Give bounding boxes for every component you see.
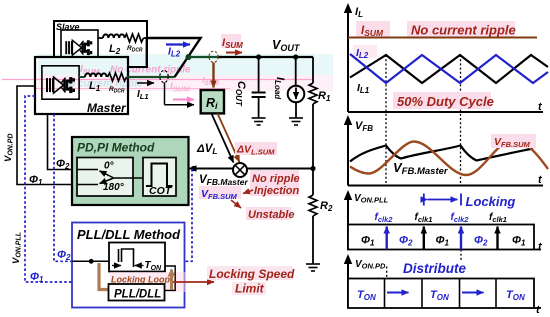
svg-text:PD,PI Method: PD,PI Method <box>77 141 155 155</box>
svg-text:Master: Master <box>87 101 127 115</box>
svg-text:COT: COT <box>149 185 173 197</box>
svg-text:R1: R1 <box>318 90 331 103</box>
svg-text:Locking: Locking <box>466 194 516 209</box>
svg-text:IL: IL <box>355 6 363 19</box>
svg-text:Φ1: Φ1 <box>30 271 44 284</box>
svg-text:Unstable: Unstable <box>248 209 294 221</box>
svg-text:Injection: Injection <box>254 185 300 197</box>
svg-text:VON.PLL: VON.PLL <box>11 232 23 264</box>
svg-text:Locking Speed: Locking Speed <box>209 267 295 281</box>
svg-text:180°: 180° <box>103 182 125 193</box>
svg-text:ΔVL: ΔVL <box>196 143 218 156</box>
svg-text:50% Duty Cycle: 50% Duty Cycle <box>397 94 494 109</box>
svg-text:VON.PLL: VON.PLL <box>354 193 389 205</box>
svg-text:fclk1: fclk1 <box>489 212 507 224</box>
svg-text:VON.PD: VON.PD <box>355 259 386 271</box>
svg-text:0°: 0° <box>104 161 115 172</box>
svg-text:PLL/DLL Method: PLL/DLL Method <box>77 227 181 242</box>
svg-text:t: t <box>538 174 543 186</box>
svg-text:fclk2: fclk2 <box>375 212 394 224</box>
svg-text:fclk2: fclk2 <box>451 212 470 224</box>
svg-text:VFB: VFB <box>355 120 373 133</box>
svg-text:VFB.Master: VFB.Master <box>393 160 449 177</box>
svg-text:Φ1: Φ1 <box>29 174 43 187</box>
svg-text:VON.PD: VON.PD <box>3 133 15 162</box>
svg-text:PLL/DLL: PLL/DLL <box>114 289 161 301</box>
svg-text:fclk1: fclk1 <box>415 212 433 224</box>
svg-text:t: t <box>538 241 543 253</box>
svg-text:Φ2: Φ2 <box>56 158 70 171</box>
svg-text:R2: R2 <box>320 200 333 213</box>
svg-text:t: t <box>536 304 541 316</box>
svg-text:No current ripple: No current ripple <box>411 23 516 38</box>
svg-text:No current ripple: No current ripple <box>62 79 143 90</box>
svg-text:IL1: IL1 <box>357 82 370 95</box>
svg-text:Limit: Limit <box>235 282 265 296</box>
svg-text:VOUT: VOUT <box>272 38 301 53</box>
svg-text:Distribute: Distribute <box>403 261 466 276</box>
svg-text:Locking Loop: Locking Loop <box>111 275 170 285</box>
svg-text:No current ripple: No current ripple <box>110 65 191 76</box>
svg-text:Φ2: Φ2 <box>57 249 71 262</box>
svg-text:No ripple: No ripple <box>252 173 300 185</box>
